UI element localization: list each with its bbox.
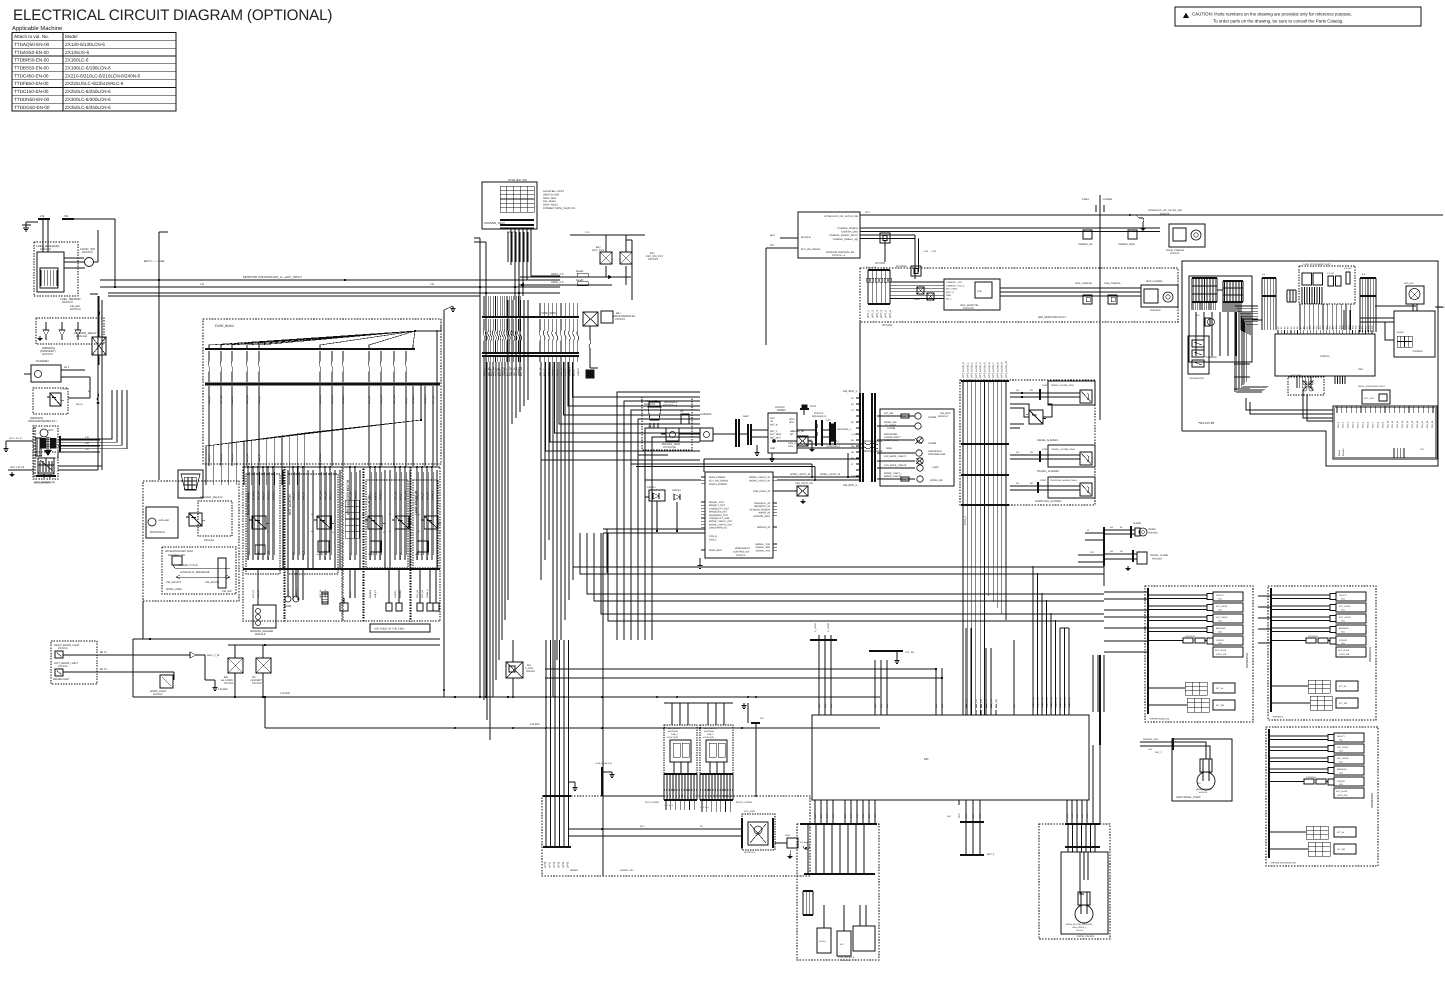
svg-text:Read#: Read# xyxy=(576,270,584,273)
svg-text:F###A#: F###A# xyxy=(1342,448,1345,456)
svg-text:SOL_PW: SOL_PW xyxy=(995,699,998,708)
svg-text:ACC_HIGH2: ACC_HIGH2 xyxy=(1339,616,1351,619)
svg-text:12V_SK: 12V_SK xyxy=(246,453,249,462)
svg-text:B/U_LT: B/U_LT xyxy=(349,590,352,598)
svg-text:KEY: KEY xyxy=(770,244,775,247)
MC controller box xyxy=(812,704,1089,818)
svg-text:#XXXXX: #XXXXX xyxy=(1076,929,1084,932)
svg-text:TRAVEL_ALARM_SW#1: TRAVEL_ALARM_SW#1 xyxy=(1051,448,1076,451)
svg-text:B/U: B/U xyxy=(527,664,531,667)
svg-text:SIG_2: SIG_2 xyxy=(1347,421,1350,428)
svg-text:B/U_LT: B/U_LT xyxy=(349,552,352,560)
svg-text:ACC_5A: ACC_5A xyxy=(547,367,550,376)
svg-text:OPT_5: OPT_5 xyxy=(885,309,888,318)
svg-text:CAN_-: CAN_- xyxy=(788,445,795,448)
svg-text:ACC_LP: ACC_LP xyxy=(252,589,255,598)
svg-text:OPT_4: OPT_4 xyxy=(880,309,883,318)
svg-text:1 3 5 2 6 4: 1 3 5 2 6 4 xyxy=(700,806,709,809)
svg-text:MONITOR(?): MONITOR(?) xyxy=(1437,306,1445,309)
svg-text:LIGHT2: LIGHT2 xyxy=(231,395,234,404)
svg-text:CW_SW ON: CW_SW ON xyxy=(205,581,219,584)
svg-text:B/U_LT: B/U_LT xyxy=(564,368,567,376)
svg-text:OPT_15: OPT_15 xyxy=(220,395,223,404)
svg-text:SP-: SP- xyxy=(790,433,794,436)
svg-text:OPT_1: OPT_1 xyxy=(867,309,870,318)
side camera unit xyxy=(1000,280,1178,319)
2speed block 1 xyxy=(1145,586,1253,722)
svg-text:CAN_A: CAN_A xyxy=(788,442,796,445)
svg-text:COND_5: COND_5 xyxy=(379,490,382,500)
svg-text:JOIN?: JOIN? xyxy=(1042,448,1049,451)
svg-text:SIG_8: SIG_8 xyxy=(1376,421,1379,428)
svg-text:OPT_6: OPT_6 xyxy=(889,309,892,318)
svg-text:BU: BU xyxy=(851,439,854,442)
mpu controller box xyxy=(1275,325,1375,388)
svg-text:ALL_LIGHTS: ALL_LIGHTS xyxy=(704,727,717,730)
svg-text:#XXXXX: #XXXXX xyxy=(58,647,68,650)
svg-text:RELAY: RELAY xyxy=(76,403,84,406)
svg-text:CAB_LT: CAB_LT xyxy=(262,491,265,500)
svg-text:#XXXXX: #XXXXX xyxy=(842,959,851,962)
svg-text:OVERLOAD_ALARM_SW#1: OVERLOAD_ALARM_SW#1 xyxy=(1050,479,1078,482)
windshield diodes and wires xyxy=(603,480,814,580)
svg-text:ELECTRICAL CIRCUIT DIAGRAM (OP: ELECTRICAL CIRCUIT DIAGRAM (OPTIONAL) xyxy=(13,7,332,24)
svg-text:SM: SM xyxy=(851,445,854,448)
svg-text:CAB_CAMERA: CAB_CAMERA xyxy=(1104,282,1121,285)
windshield controller xyxy=(697,472,777,568)
acc riser wires xyxy=(112,390,127,414)
fuse box staircase wires xyxy=(541,362,700,460)
windshield swbox link wires xyxy=(631,464,816,481)
svg-text:*SEL: *SEL xyxy=(1358,368,1364,371)
side monitor dashed region xyxy=(860,268,1178,430)
svg-text:COND_5: COND_5 xyxy=(324,589,327,598)
svg-text:ALARM: ALARM xyxy=(1133,522,1141,525)
svg-text:CAB_LT: CAB_LT xyxy=(208,395,211,404)
svg-text:OPT_ALRM_0: OPT_ALRM_0 xyxy=(962,362,965,378)
svg-text:OPT_2: OPT_2 xyxy=(871,309,874,318)
svg-text:B/U_LT: B/U_LT xyxy=(573,368,576,376)
svg-text:SIDE_CAMERA: SIDE_CAMERA xyxy=(1146,280,1163,283)
svg-text:ZX350LC-6/350LCN-6: ZX350LC-6/350LCN-6 xyxy=(65,105,111,110)
speaker components xyxy=(797,412,852,448)
right box upper connectors xyxy=(1196,273,1376,356)
svg-text:HYDRAULIC_OIL_FILTER_SW: HYDRAULIC_OIL_FILTER_SW xyxy=(824,215,858,218)
svg-text:WORK_AREA: WORK_AREA xyxy=(166,588,182,591)
svg-text:AC1: AC1 xyxy=(865,211,870,214)
long bottom bus wires xyxy=(133,692,880,728)
svg-text:86: 86 xyxy=(362,513,364,516)
svg-text:ALL_LIGHTS: ALL_LIGHTS xyxy=(668,727,681,730)
svg-text:P/S: P/S xyxy=(1197,782,1201,785)
svg-text:CAP: CAP xyxy=(826,419,831,422)
svg-text:WORK_LIGHT2_IN: WORK_LIGHT2_IN xyxy=(820,473,840,476)
svg-text:SEAT_H: SEAT_H xyxy=(329,491,332,500)
svg-text:KEY_SW: KEY_SW xyxy=(267,550,270,560)
wiper motor controller relay xyxy=(28,377,90,423)
svg-text:SIG_12: SIG_12 xyxy=(1396,420,1399,428)
svg-text:#XXXXbV: #XXXXbV xyxy=(1152,557,1163,560)
svg-text:HORN_5: HORN_5 xyxy=(319,394,322,404)
svg-text:ANT#: ANT# xyxy=(810,405,817,408)
cab frame divider xyxy=(1082,195,1112,420)
svg-text:2SPEED#1: 2SPEED#1 xyxy=(1308,635,1319,638)
svg-text:30: 30 xyxy=(383,522,385,525)
svg-text:CN#2: CN#2 xyxy=(785,834,791,837)
svg-text:86: 86 xyxy=(311,513,313,516)
svg-text:87: 87 xyxy=(332,531,334,534)
svg-text:CAB_2: CAB_2 xyxy=(707,733,714,736)
svg-text:MIR_HT: MIR_HT xyxy=(416,491,419,500)
svg-text:KEY_SW: KEY_SW xyxy=(520,366,523,376)
svg-text:CAMERA-_CH1_C: CAMERA-_CH1_C xyxy=(946,284,965,287)
svg-text:CAB_LT: CAB_LT xyxy=(369,551,372,560)
svg-text:F A SW+: F A SW+ xyxy=(1344,267,1353,270)
relay farm bottom wires xyxy=(133,601,440,697)
svg-text:ATT_3a: ATT_3a xyxy=(1339,685,1347,688)
svg-text:FRAME: FRAME xyxy=(1103,198,1112,201)
svg-text:TTDBR50-EN-00: TTDBR50-EN-00 xyxy=(14,58,49,63)
svg-text:SENS_IN: SENS_IN xyxy=(1041,696,1044,706)
svg-text:#XXXXLW: #XXXXLW xyxy=(1150,309,1162,312)
svg-text:ACC_5A: ACC_5A xyxy=(331,395,334,404)
caution box xyxy=(1175,7,1421,26)
svg-text:*1SPR/SLOW,OVERLOAD: *1SPR/SLOW,OVERLOAD xyxy=(1270,862,1297,865)
svg-text:ACC_FLOW: ACC_FLOW xyxy=(1215,649,1226,652)
applicable machine label xyxy=(12,25,62,32)
svg-text:4G/NET: 4G/NET xyxy=(1397,331,1405,334)
farm relay pin labels xyxy=(246,513,441,534)
svg-text:SOL_PW: SOL_PW xyxy=(985,699,988,708)
svg-text:B/U_LT: B/U_LT xyxy=(405,396,408,404)
svg-text:#XXXXX: #XXXXX xyxy=(736,554,746,557)
ARS signal wires xyxy=(519,270,631,287)
svg-text:MIR_HT: MIR_HT xyxy=(208,453,211,462)
svg-text:SPK-: SPK- xyxy=(789,421,795,424)
svg-text:CHASSIS_INFO: CHASSIS_INFO xyxy=(484,221,505,225)
left fuse detail xyxy=(60,388,99,406)
right box internal wires xyxy=(1217,290,1333,421)
cab2 connector right xyxy=(664,703,752,804)
svg-text:RIGHT_LOWER: RIGHT_LOWER xyxy=(736,801,752,804)
svg-text:SEAT_H: SEAT_H xyxy=(267,491,270,500)
svg-text:P_CON: P_CON xyxy=(525,667,533,670)
svg-text:CW_SW OFF: CW_SW OFF xyxy=(166,581,182,584)
svg-text:#XXXXX: #XXXXX xyxy=(58,665,68,668)
svg-text:AC: AC xyxy=(851,397,854,400)
svg-text:ATT_3a: ATT_3a xyxy=(1337,831,1345,834)
svg-text:ZX210-6/210LC-6/210LCN-6/240N-: ZX210-6/210LC-6/210LCN-6/240N-6 xyxy=(65,73,141,78)
svg-text:CAB_LT: CAB_LT xyxy=(258,395,261,404)
svg-text:SENSOR_GND: SENSOR_GND xyxy=(753,515,770,518)
svg-text:KEY_SW: KEY_SW xyxy=(319,490,322,500)
svg-text:SELECT: SELECT xyxy=(1216,594,1225,597)
svg-text:+5V: +5V xyxy=(1148,748,1152,751)
svg-text:LIGHT2: LIGHT2 xyxy=(577,367,580,376)
svg-text:RADIO: RADIO xyxy=(777,409,786,412)
svg-text:C A SW: C A SW xyxy=(1327,272,1334,275)
MC top wires xyxy=(810,566,1104,745)
svg-text:BK 6Y: BK 6Y xyxy=(100,651,107,654)
svg-text:ACCESSORIES: ACCESSORIES xyxy=(34,482,51,485)
alternator detail xyxy=(34,458,56,485)
svg-text:FAN_5A: FAN_5A xyxy=(231,453,234,462)
attachment shift wires xyxy=(1300,304,1351,330)
svg-text:HYDRAULIC_PRESSURE: HYDRAULIC_PRESSURE xyxy=(180,571,210,574)
center extra wires xyxy=(603,455,704,580)
acc socket link xyxy=(756,797,812,829)
svg-text:OPT_ALRM_4: OPT_ALRM_4 xyxy=(979,362,982,378)
washer relay xyxy=(74,296,106,365)
svg-text:12V_SK: 12V_SK xyxy=(368,395,371,404)
svg-text:12V_SK: 12V_SK xyxy=(426,491,429,500)
backup cut relays xyxy=(570,231,664,300)
svg-text:TTDDN50-EN-00: TTDDN50-EN-00 xyxy=(14,97,50,102)
svg-text:CAMERA_MAIN: CAMERA_MAIN xyxy=(1118,243,1135,246)
svg-text:CAMERA_SIGNAL_3(I): CAMERA_SIGNAL_3(I) xyxy=(833,238,858,241)
svg-text:ANT_2: ANT_2 xyxy=(987,853,995,856)
svg-text:SPARE1: SPARE1 xyxy=(252,491,255,500)
svg-text:A-SEL ATTACHMENT SHIFT: A-SEL ATTACHMENT SHIFT xyxy=(1303,263,1332,266)
svg-text:COND_5: COND_5 xyxy=(302,550,305,560)
svg-text:CAB_LT: CAB_LT xyxy=(374,589,377,598)
overload alarm switch xyxy=(1010,477,1095,503)
svg-text:ANTENNA: ANTENNA xyxy=(668,730,679,733)
svg-text:TRAVEL_ALARM: TRAVEL_ALARM xyxy=(1150,554,1168,557)
svg-text:WORK_LIGHT1_IN: WORK_LIGHT1_IN xyxy=(790,473,810,476)
svg-text:OPTION: OPTION xyxy=(882,324,892,327)
acc feed wire xyxy=(3,437,33,451)
svg-text:MAIN_GND: MAIN_GND xyxy=(709,549,722,552)
center staircase wires xyxy=(617,392,700,640)
svg-text:ACC_CAM: ACC_CAM xyxy=(1364,397,1374,400)
relay farm lower components xyxy=(250,592,439,636)
svg-text:TTDFB50-EN-00: TTDFB50-EN-00 xyxy=(14,81,49,86)
svg-text:SENS_IN: SENS_IN xyxy=(1050,696,1053,706)
svg-text:SIG_0: SIG_0 xyxy=(1337,421,1340,428)
cab power tick xyxy=(595,762,664,796)
svg-text:SENS_IN: SENS_IN xyxy=(1059,696,1062,706)
svg-text:SOL_2A: SOL_2A xyxy=(416,589,419,598)
svg-text:*SELECT26: *SELECT26 xyxy=(1198,421,1215,425)
2speed side labels xyxy=(1246,647,1374,808)
svg-text:STARTER_SW: STARTER_SW xyxy=(508,178,527,182)
svg-text:ACC_FLOW: ACC_FLOW xyxy=(1336,790,1347,793)
alarm dashed box xyxy=(960,380,1095,505)
svg-text:OVER_LOAD#1: OVER_LOAD#1 xyxy=(1077,935,1095,938)
svg-text:SIG_6: SIG_6 xyxy=(1366,421,1369,428)
svg-text:FAN_5A: FAN_5A xyxy=(379,551,382,560)
right box camera connectors xyxy=(1189,276,1252,362)
svg-text:CONVERTER/RELAY+: CONVERTER/RELAY+ xyxy=(28,419,57,423)
svg-text:SOCKET#1: SOCKET#1 xyxy=(744,851,756,854)
svg-text:OPT_15: OPT_15 xyxy=(432,395,435,404)
svg-text:30: 30 xyxy=(410,522,412,525)
spine corner joins xyxy=(443,689,487,698)
svg-text:B/U_LT: B/U_LT xyxy=(556,368,559,376)
svg-text:CONT_SOL: CONT_SOL xyxy=(1337,794,1349,797)
svg-text:—2 B: —2 B xyxy=(922,250,928,253)
svg-text:SENS_IN: SENS_IN xyxy=(1054,696,1057,706)
svg-text:KEY_ON_SIGNAL: KEY_ON_SIGNAL xyxy=(801,248,821,251)
svg-text:ANT_OUT: ANT_OUT xyxy=(770,436,781,439)
svg-text:SIG_7: SIG_7 xyxy=(1371,421,1374,428)
center spine verticals xyxy=(474,238,487,697)
svg-text:TTDC150-EN-00: TTDC150-EN-00 xyxy=(14,89,49,94)
svg-text:SWING_ALARM_SW#1: SWING_ALARM_SW#1 xyxy=(1051,384,1075,387)
svg-text:30: 30 xyxy=(267,522,269,525)
svg-text:OPT_ALRM_5: OPT_ALRM_5 xyxy=(984,362,987,378)
svg-text:ZX250LC-6/250LCN-6: ZX250LC-6/250LCN-6 xyxy=(65,89,111,94)
svg-text:RADIO5: RADIO5 xyxy=(292,551,295,560)
svg-text:HORN_5: HORN_5 xyxy=(295,589,298,598)
side monitor unit xyxy=(890,279,1000,310)
svg-text:+CAB_5W/5A,A,S1: +CAB_5W/5A,A,S1 xyxy=(595,762,613,765)
svg-text:40 2: 40 2 xyxy=(64,366,70,369)
audio output wires xyxy=(797,440,883,453)
2speed block 2 xyxy=(1268,586,1376,720)
svg-text:CEE: CEE xyxy=(902,415,907,418)
svg-text:ACC_PWR: ACC_PWR xyxy=(744,810,755,813)
svg-text:B/U_LT: B/U_LT xyxy=(399,492,402,500)
svg-text:SOL_2A: SOL_2A xyxy=(560,367,563,376)
svg-text:#XXXXX—a: #XXXXX—a xyxy=(663,404,678,407)
aux private sw chain xyxy=(661,413,768,449)
wiper washer switch box xyxy=(162,547,236,594)
MC left feed wires xyxy=(265,621,1104,697)
FR_sub fuse xyxy=(70,304,100,319)
svg-text:ROOM_SW: ROOM_SW xyxy=(930,479,943,482)
svg-text:2 B: 2 B xyxy=(85,436,89,439)
svg-text:SOL_PW: SOL_PW xyxy=(975,699,978,708)
svg-text:SIG_11: SIG_11 xyxy=(1391,420,1394,428)
svg-text:B/U: B/U xyxy=(1196,314,1200,317)
svg-text:A/C_SW: A/C_SW xyxy=(884,412,894,415)
option wire bundle xyxy=(961,361,1009,505)
svg-text:+B: +B xyxy=(770,420,773,423)
svg-text:SIG_19: SIG_19 xyxy=(1431,420,1434,428)
svg-text:86: 86 xyxy=(418,513,420,516)
right box staircase bundle xyxy=(1234,306,1268,392)
svg-text:BUZ: BUZ xyxy=(770,234,775,237)
svg-text:SENSOR_GND: SENSOR_GND xyxy=(1143,738,1159,741)
relay farm lower wires xyxy=(258,569,436,605)
svg-text:ACC_5A: ACC_5A xyxy=(246,395,249,404)
bus junction dots xyxy=(234,696,757,729)
svg-text:ACC_5A: ACC_5A xyxy=(324,491,327,500)
svg-text:KEY_ON/S: KEY_ON/S xyxy=(946,288,957,291)
svg-text:KEY_SW: KEY_SW xyxy=(257,550,260,560)
svg-text:85: 85 xyxy=(418,530,420,533)
svg-text:<OUTSIDE OF THE CAB>: <OUTSIDE OF THE CAB> xyxy=(374,628,405,631)
svg-text:(UNDERRAIL/S): (UNDERRAIL/S) xyxy=(709,527,727,530)
svg-text:85: 85 xyxy=(389,530,391,533)
right sub-diagram outer box xyxy=(1182,261,1438,466)
svg-text:SENS_IN: SENS_IN xyxy=(1068,696,1071,706)
svg-text:OPT_ALRM_6: OPT_ALRM_6 xyxy=(988,362,991,378)
glass sensor component xyxy=(772,430,814,452)
svg-text:1_LW: 1_LW xyxy=(851,433,857,436)
svg-text:ACC_HIGH2: ACC_HIGH2 xyxy=(1216,616,1228,619)
svg-text:LED_BACK_LIGHT1: LED_BACK_LIGHT1 xyxy=(884,455,907,458)
svg-text:87: 87 xyxy=(410,531,412,534)
svg-text:HIGH_PRESS_5: HIGH_PRESS_5 xyxy=(1072,926,1086,929)
svg-text:#XXXXX: #XXXXX xyxy=(648,258,658,261)
svg-text:OPT4: OPT4 xyxy=(562,861,565,868)
svg-text:OPT_ALRM_8: OPT_ALRM_8 xyxy=(996,362,999,378)
svg-text:2SPEED: 2SPEED xyxy=(1339,639,1347,642)
svg-text:Attach to vol. No.: Attach to vol. No. xyxy=(14,34,49,39)
svg-text:SENS_IN: SENS_IN xyxy=(1045,696,1048,706)
svg-text:WIPER/INTERMITTENT: WIPER/INTERMITTENT xyxy=(165,550,194,553)
cab2 connector left xyxy=(645,703,697,804)
svg-text:NORMAL CYCLE: NORMAL CYCLE xyxy=(178,564,198,567)
svg-text:(MODE_SW): (MODE_SW) xyxy=(884,439,898,442)
svg-text:30: 30 xyxy=(332,522,334,525)
farm bottom labels xyxy=(252,589,429,598)
svg-text:2SPD_C: 2SPD_C xyxy=(964,515,967,525)
svg-text:ACC_HIGH1: ACC_HIGH1 xyxy=(1337,746,1349,749)
svg-text:#XXXXX: #XXXXX xyxy=(615,318,625,321)
svg-text:B/U_LT: B/U_LT xyxy=(543,368,546,376)
camera wire connector xyxy=(880,233,928,279)
svg-text:AUDIO_C: AUDIO_C xyxy=(830,445,841,448)
svg-text:WIPER5: WIPER5 xyxy=(369,589,372,598)
svg-text:AG: AG xyxy=(1016,389,1019,392)
svg-text:TERMINATOR/1: TERMINATOR/1 xyxy=(1189,377,1205,380)
svg-text:OPT_15: OPT_15 xyxy=(539,367,542,376)
fuel level sensor xyxy=(22,214,115,304)
fuse box output wires xyxy=(484,362,573,740)
svg-text:AUDIO_L: AUDIO_L xyxy=(830,440,841,443)
svg-text:ZX130-6/130LCN-6: ZX130-6/130LCN-6 xyxy=(65,42,105,47)
svg-text:ACC 1 B 2 B: ACC 1 B 2 B xyxy=(10,466,25,469)
gps antenna box xyxy=(1404,282,1424,311)
svg-text:ANTENNA: ANTENNA xyxy=(704,730,715,733)
svg-text:SWING_ALARM#1: SWING_ALARM#1 xyxy=(1037,439,1059,442)
svg-text:ACC_HIGH1: ACC_HIGH1 xyxy=(1216,605,1228,608)
fuse box FUSE_BOX2 xyxy=(203,319,441,485)
svg-text:SOL_PW: SOL_PW xyxy=(980,699,983,708)
svg-text:SHIP: SHIP xyxy=(743,415,749,418)
svg-text:P_LED1: P_LED1 xyxy=(814,622,817,632)
monitor controller bus wires xyxy=(100,275,560,296)
svg-text:ANT_1: ANT_1 xyxy=(770,430,778,433)
svg-text:2 B: 2 B xyxy=(40,214,44,218)
svg-text:SIG_3: SIG_3 xyxy=(1352,421,1355,428)
svg-text:OPT_15: OPT_15 xyxy=(394,491,397,500)
svg-text:WASHER_RELAY2: WASHER_RELAY2 xyxy=(200,496,223,499)
acc power socket xyxy=(569,810,776,854)
amp relay xyxy=(583,311,635,378)
svg-text:2SPEED: 2SPEED xyxy=(1216,639,1224,642)
svg-text:KEY_SW: KEY_SW xyxy=(257,490,260,500)
svg-text:#XXXXXX: #XXXXXX xyxy=(963,307,974,310)
left column link wires xyxy=(90,294,102,470)
svg-text:CAMERA_GND: CAMERA_GND xyxy=(841,231,858,234)
svg-text:SIG_5: SIG_5 xyxy=(1362,421,1365,428)
bus relay pair xyxy=(221,645,271,698)
spare2 xyxy=(539,582,541,640)
svg-text:ACC_CUT: ACC_CUT xyxy=(592,249,605,252)
travel alarm switch xyxy=(1010,445,1095,473)
svg-text:CAMERA_SIGNAL_INPUT: CAMERA_SIGNAL_INPUT xyxy=(829,234,858,237)
bottom left bundle xyxy=(543,640,578,868)
svg-text:SIG_17: SIG_17 xyxy=(1421,420,1424,428)
svg-text:LIGHT2: LIGHT2 xyxy=(394,590,397,598)
MC wire labels xyxy=(965,696,1071,708)
alarm bundle lower wires xyxy=(963,505,1006,715)
